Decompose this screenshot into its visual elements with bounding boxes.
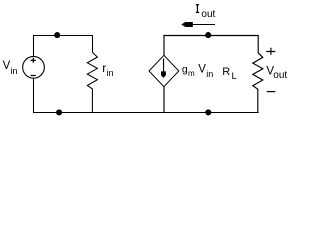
svg-text:in: in — [206, 69, 213, 79]
svg-text:L: L — [232, 71, 237, 82]
svg-text:V: V — [198, 63, 206, 75]
svg-text:in: in — [107, 68, 114, 78]
svg-text:m: m — [188, 69, 195, 78]
svg-text:out: out — [201, 9, 215, 20]
svg-text:in: in — [10, 66, 17, 76]
svg-text:out: out — [273, 70, 287, 81]
svg-text:V: V — [3, 60, 11, 72]
svg-text:g: g — [182, 63, 188, 75]
svg-text:R: R — [222, 66, 230, 78]
